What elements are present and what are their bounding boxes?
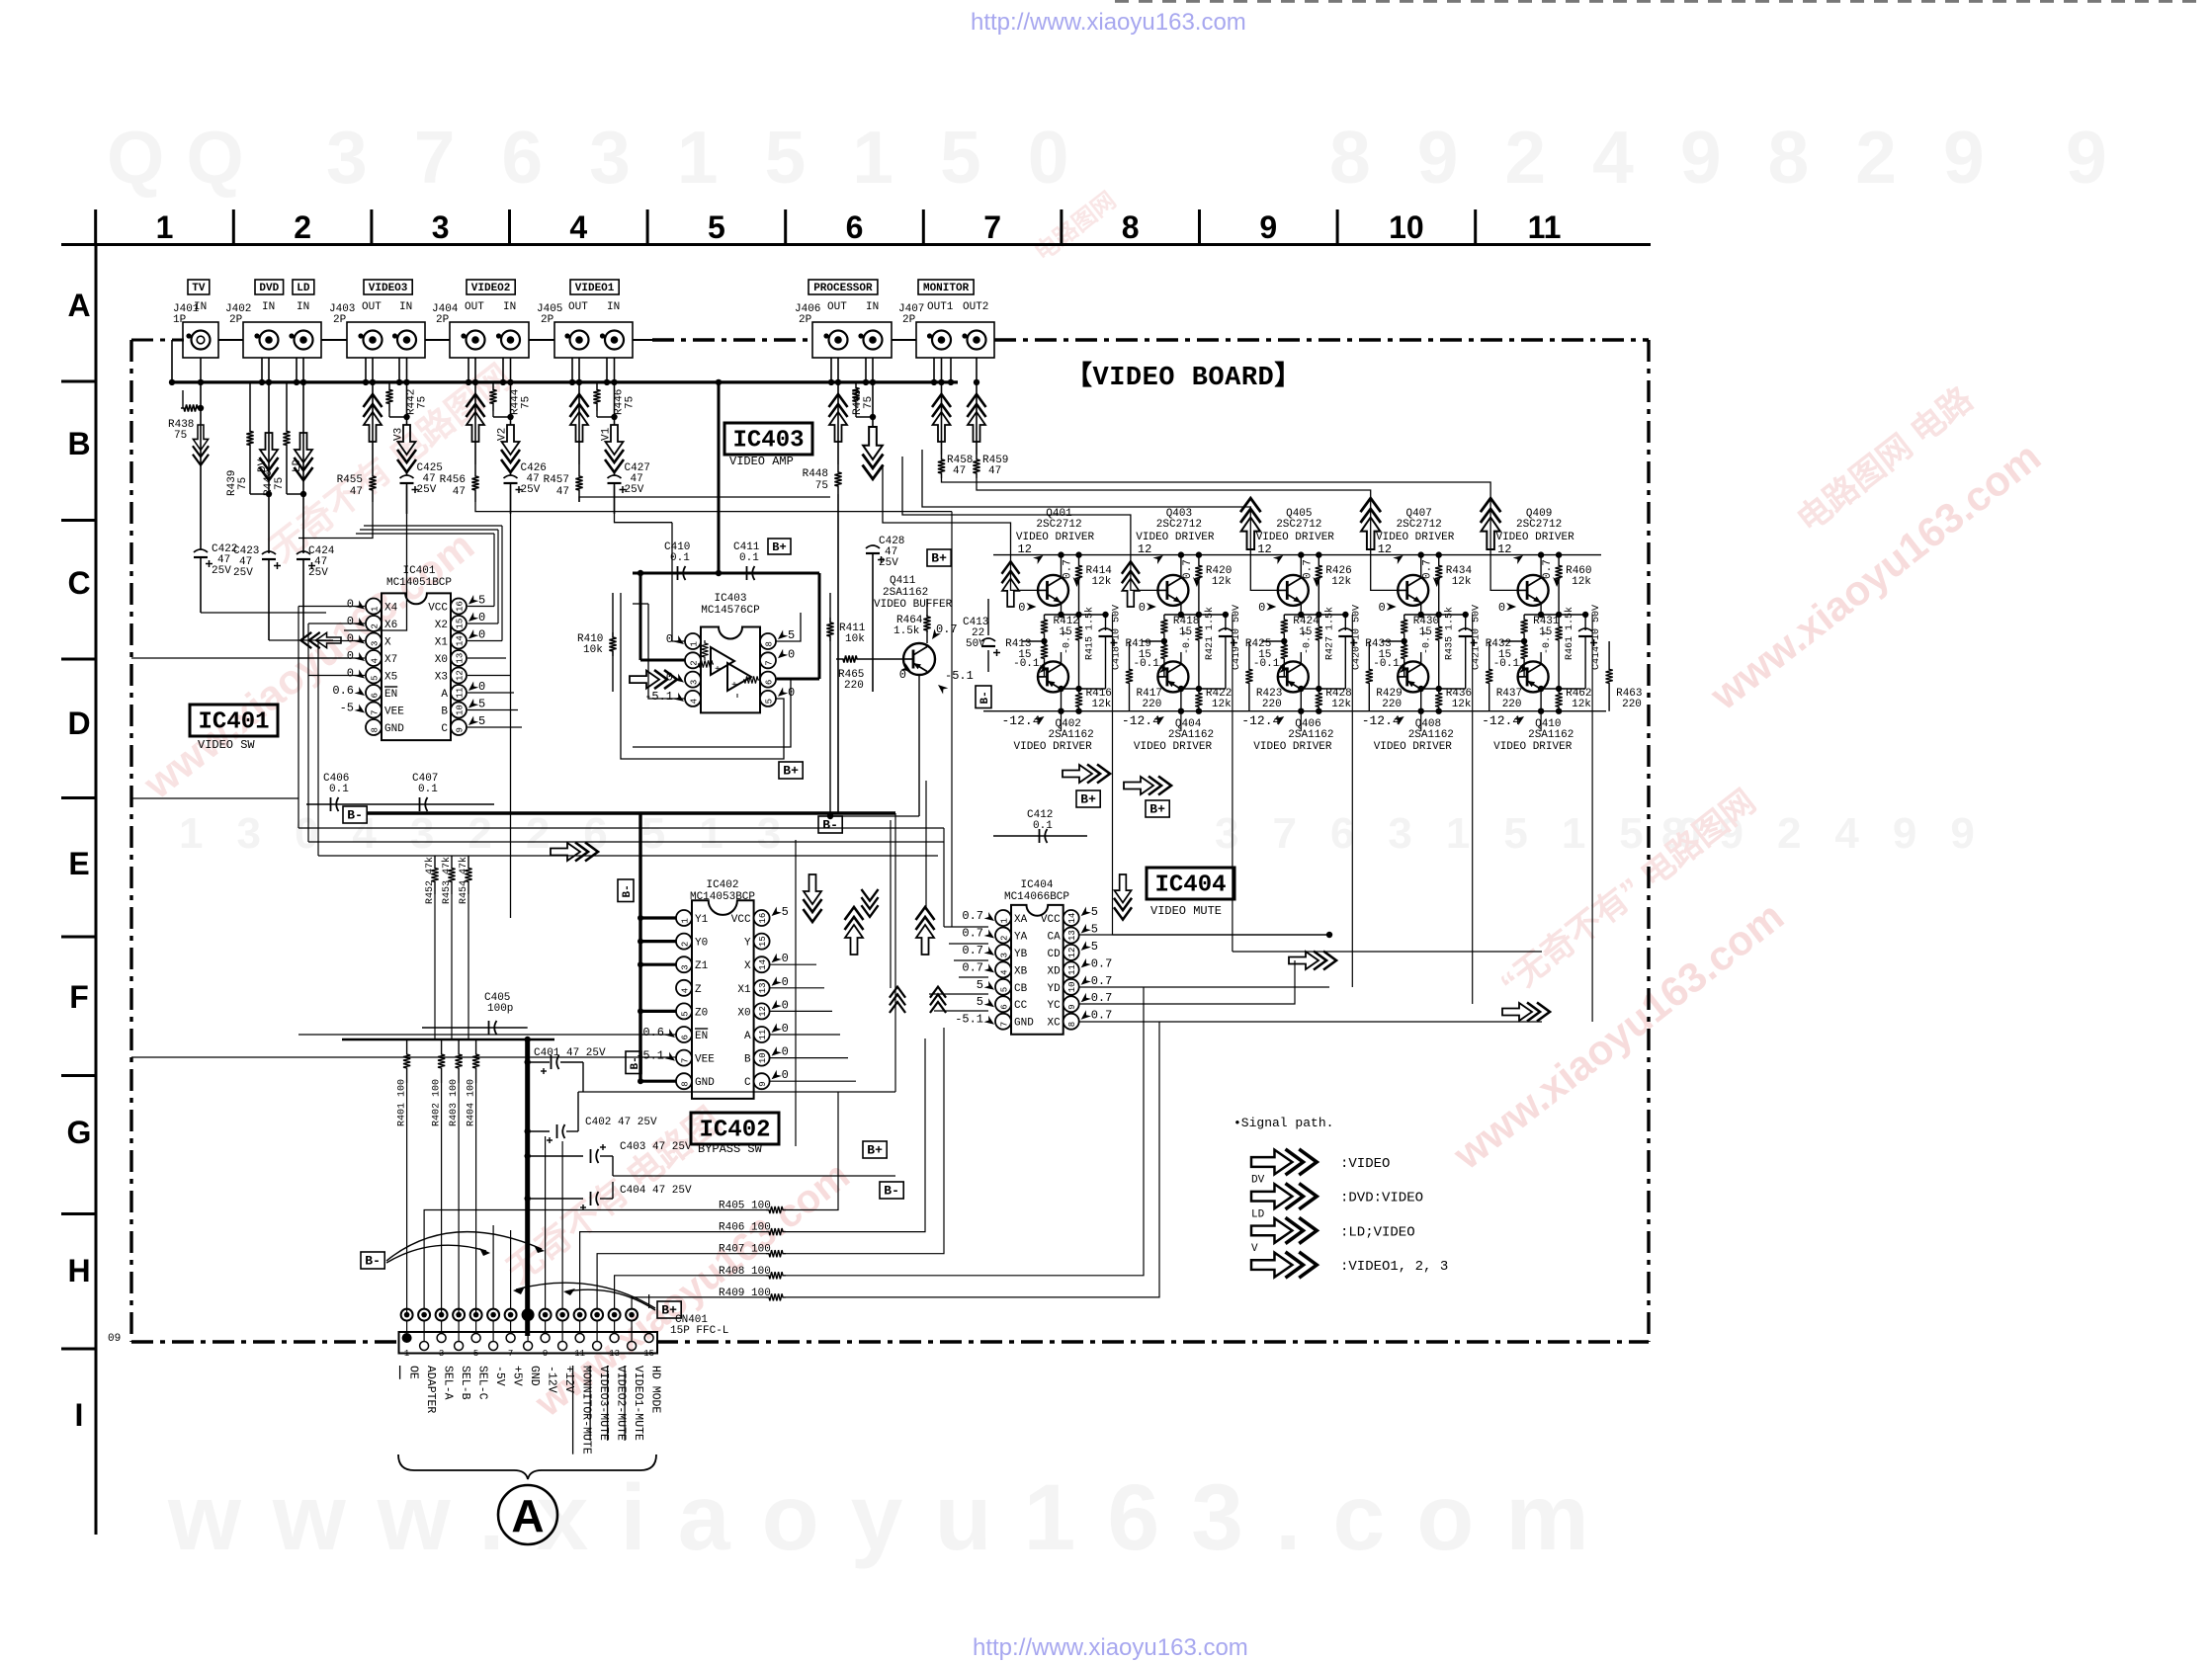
svg-text:3: 3 [1000, 953, 1010, 957]
svg-text:376315150: 376315150 [326, 116, 1115, 199]
svg-text:QQ: QQ [107, 116, 266, 199]
svg-text:GND: GND [384, 723, 404, 735]
svg-text:2SC2712: 2SC2712 [1516, 519, 1562, 531]
resistor R462 12k [1556, 688, 1592, 714]
svg-text:10: 10 [758, 1052, 768, 1063]
svg-text:2P: 2P [799, 314, 812, 326]
V3 input column R442 R455 C425 [337, 382, 443, 514]
label B- with arrows near CN401 [361, 1232, 545, 1269]
transistor Q403 label [1136, 508, 1215, 564]
svg-text:VIDEO DRIVER: VIDEO DRIVER [1493, 741, 1573, 753]
svg-text:2SA1162: 2SA1162 [1528, 729, 1574, 741]
svg-text:7: 7 [983, 209, 1001, 245]
svg-text:B: B [744, 1054, 751, 1066]
svg-text:13: 13 [1067, 930, 1077, 941]
label IC402 BYPASS SW [691, 1113, 779, 1156]
connector J401 TV jack [173, 280, 218, 358]
svg-text:Y1: Y1 [695, 914, 709, 926]
svg-text:VIDEO BUFFER: VIDEO BUFFER [874, 599, 953, 611]
svg-text:0.7: 0.7 [1302, 559, 1314, 579]
svg-text:OUT: OUT [465, 301, 484, 313]
resistor R438 cap C422 TV input [168, 382, 237, 613]
svg-text:VIDEO1-MUTE: VIDEO1-MUTE [632, 1366, 644, 1441]
svg-text:11: 11 [456, 688, 466, 699]
arrow into IC401 pin3 [300, 632, 341, 648]
svg-text:IC402: IC402 [706, 879, 738, 891]
svg-text:0.6: 0.6 [332, 684, 354, 698]
transistor Q403 2SC2712 [1139, 555, 1226, 619]
svg-text:14: 14 [758, 959, 768, 970]
wires IC404 outputs [1079, 932, 1542, 1022]
svg-text:2SA1162: 2SA1162 [1049, 729, 1094, 741]
svg-text:F: F [69, 979, 89, 1015]
svg-text:75: 75 [521, 396, 533, 409]
svg-text:2SC2712: 2SC2712 [1156, 519, 1202, 531]
MONITOR columns R458 R459 [932, 382, 1008, 478]
svg-text:-5V: -5V [493, 1366, 506, 1386]
wires IC403 loops [621, 523, 801, 759]
svg-text:-0.7: -0.7 [1063, 630, 1073, 654]
label IC401 VIDEO SW [190, 705, 278, 752]
svg-text:220: 220 [1622, 699, 1642, 710]
svg-text:X1: X1 [737, 984, 751, 996]
svg-text:12: 12 [1018, 542, 1032, 556]
svg-text:0: 0 [782, 975, 789, 989]
svg-text:C402 47 25V: C402 47 25V [585, 1117, 657, 1128]
transistor Q407 label [1376, 508, 1455, 564]
svg-text:12: 12 [456, 670, 466, 681]
label B- rotated near IC402 [618, 879, 634, 902]
wires IC401 left [131, 607, 365, 857]
svg-text:25V: 25V [417, 484, 437, 496]
svg-text:6: 6 [765, 680, 775, 685]
svg-text:Y0: Y0 [695, 938, 708, 950]
svg-text:R402 100: R402 100 [432, 1079, 443, 1126]
svg-text:IN: IN [399, 301, 412, 313]
svg-text:2SC2712: 2SC2712 [1397, 519, 1442, 531]
resistor R437 220 [1486, 641, 1522, 711]
svg-text:Z0: Z0 [695, 1007, 708, 1019]
IC401 MC14051BCP [332, 565, 485, 740]
svg-text:SEL-A: SEL-A [442, 1366, 455, 1400]
svg-text:4: 4 [569, 209, 587, 245]
svg-text:47: 47 [988, 465, 1001, 477]
svg-text:0: 0 [347, 598, 354, 612]
svg-text:5: 5 [681, 1011, 691, 1016]
legend title Signal path [1234, 1116, 1333, 1130]
svg-text:IN: IN [866, 301, 879, 313]
svg-text:R455: R455 [337, 474, 363, 486]
svg-text:0: 0 [347, 615, 354, 628]
svg-text:IN: IN [297, 301, 309, 313]
svg-text:XD: XD [1047, 965, 1061, 977]
signal arrow driver col 2 [1122, 561, 1140, 607]
svg-text:2: 2 [690, 660, 700, 665]
svg-text:X: X [744, 960, 751, 972]
svg-text:B-: B- [630, 1056, 641, 1069]
svg-text:HD MODE: HD MODE [649, 1366, 662, 1413]
svg-text:R448: R448 [803, 468, 828, 480]
resistor R440 cap C424 LD input [263, 382, 335, 640]
svg-text:9: 9 [543, 1349, 548, 1359]
svg-text:+: + [715, 665, 721, 676]
svg-text:8: 8 [1067, 1022, 1077, 1027]
svg-text:X7: X7 [384, 654, 397, 666]
svg-text:-0.1: -0.1 [1493, 658, 1520, 670]
transistor Q408 2SA1162 [1398, 652, 1466, 714]
svg-text:YC: YC [1047, 1000, 1061, 1012]
svg-text:5: 5 [1091, 940, 1098, 954]
svg-text:G: G [67, 1115, 92, 1150]
svg-text:3: 3 [432, 209, 450, 245]
svg-text:VIDEO DRIVER: VIDEO DRIVER [1374, 741, 1453, 753]
svg-text:R421 1.5k: R421 1.5k [1204, 607, 1216, 660]
svg-text:Z1: Z1 [695, 960, 709, 972]
svg-text:OUT: OUT [568, 301, 588, 313]
resistor R429 220 [1366, 641, 1403, 711]
svg-text:5: 5 [708, 209, 725, 245]
signal arrow driver col 3 [1240, 498, 1261, 549]
resistors R405-R409 100 [424, 987, 1159, 1308]
svg-text:2SA1162: 2SA1162 [883, 587, 928, 599]
input signal routing wires [201, 486, 952, 918]
GND trunk to CN401 [342, 1037, 554, 1336]
svg-text:4: 4 [681, 988, 691, 993]
svg-text:Z: Z [695, 984, 702, 996]
svg-text:12k: 12k [1572, 699, 1591, 710]
svg-text:YB: YB [1014, 949, 1028, 960]
svg-text:1: 1 [404, 1349, 409, 1359]
signal arrow driver col 5 [1481, 498, 1501, 549]
capacitor C405 100p [422, 992, 528, 1035]
svg-text:B-: B- [365, 1254, 381, 1269]
svg-text:47: 47 [350, 486, 363, 498]
resistors R418 R419 15 [1125, 615, 1199, 677]
svg-text:0.7: 0.7 [962, 944, 983, 957]
svg-text:16: 16 [758, 913, 768, 924]
svg-text:C403 47 25V: C403 47 25V [620, 1141, 692, 1153]
connector J406 PROCESSOR jacks [795, 280, 892, 358]
svg-text:Y: Y [744, 938, 751, 950]
svg-text:IC401: IC401 [198, 709, 269, 736]
svg-text:10k: 10k [845, 633, 865, 645]
svg-text:B-: B- [979, 691, 991, 704]
svg-text:0.7: 0.7 [1091, 956, 1113, 970]
svg-text:4: 4 [690, 699, 700, 704]
svg-text:-12.4: -12.4 [1362, 713, 1401, 728]
arrow E-F right [1502, 1003, 1550, 1022]
svg-text:B: B [441, 706, 448, 718]
svg-text:-0.7: -0.7 [1182, 630, 1193, 654]
svg-text:0: 0 [782, 998, 789, 1012]
svg-text:0.1: 0.1 [1033, 820, 1053, 832]
svg-text:11: 11 [574, 1349, 585, 1359]
resistor R436 12k [1435, 688, 1472, 714]
svg-text:75: 75 [174, 430, 187, 442]
signal arrow driver col 4 [1360, 498, 1381, 549]
label B+ near C411 [768, 539, 791, 554]
svg-text:2P: 2P [541, 314, 554, 326]
wires IC402 EN VEE [131, 1035, 676, 1057]
transistor Q411 video buffer R464 [830, 575, 974, 816]
transistor Q405 label [1256, 508, 1335, 564]
resistor R417 220 [1126, 641, 1162, 711]
transistor Q401 label [1016, 508, 1095, 564]
svg-text:C419 10 50V: C419 10 50V [1232, 605, 1242, 670]
svg-text:www.xiaoyu163.com: www.xiaoyu163.com [167, 1465, 1621, 1570]
svg-text:MC14066BCP: MC14066BCP [1004, 891, 1069, 903]
CN401 pin labels [400, 1366, 662, 1454]
label Q404 VIDEO DRIVER [1122, 713, 1214, 753]
svg-text:0: 0 [347, 649, 354, 663]
transistor Q406 2SA1162 [1278, 652, 1346, 714]
svg-text:IC403: IC403 [732, 428, 804, 455]
svg-text:R454 47k: R454 47k [458, 857, 469, 904]
svg-text:16: 16 [456, 601, 466, 612]
svg-text:0: 0 [1378, 601, 1385, 615]
svg-text:5: 5 [782, 905, 789, 919]
thick net IC403 [638, 570, 819, 679]
svg-text:【VIDEO BOARD】: 【VIDEO BOARD】 [1065, 361, 1302, 393]
svg-text:2: 2 [294, 209, 311, 245]
svg-text:1.5k: 1.5k [893, 625, 920, 637]
capacitor C402 47 25V [525, 1092, 896, 1143]
svg-text:1: 1 [371, 607, 381, 612]
svg-text:220: 220 [1143, 699, 1162, 710]
label B+ right of C412 [1146, 800, 1169, 817]
svg-text:0.7: 0.7 [1182, 559, 1194, 579]
svg-text:VIDEO DRIVER: VIDEO DRIVER [1253, 741, 1332, 753]
svg-text:220: 220 [844, 680, 864, 692]
svg-text:CD: CD [1047, 949, 1061, 960]
svg-text:15: 15 [456, 619, 466, 629]
svg-text:5: 5 [478, 594, 485, 608]
svg-text:B+: B+ [772, 540, 786, 554]
column numbers 1-11 [156, 209, 1562, 245]
svg-text:ADAPTER: ADAPTER [424, 1366, 437, 1413]
transistor Q410 2SA1162 [1518, 652, 1586, 714]
svg-text:5: 5 [371, 676, 381, 681]
capacitor C412 0.1 [993, 809, 1087, 843]
arrow left of IC404 label [1114, 874, 1132, 920]
svg-text:12: 12 [1378, 542, 1392, 556]
svg-text:0: 0 [478, 680, 485, 694]
resistor R439 cap C423 DVD input [226, 382, 281, 640]
svg-text:0: 0 [347, 667, 354, 681]
svg-text:-5.1: -5.1 [945, 669, 974, 683]
capacitor C414 10 50V [1578, 605, 1602, 689]
capacitor C421 10 50V [1459, 605, 1483, 689]
label B+ near C409 [779, 762, 803, 779]
svg-text:C: C [744, 1077, 751, 1089]
svg-text:3: 3 [681, 964, 691, 969]
svg-text:13: 13 [456, 653, 466, 664]
svg-text:0.7: 0.7 [1422, 559, 1434, 579]
svg-text:I: I [75, 1397, 84, 1433]
svg-text:0: 0 [782, 952, 789, 965]
capacitor C419 10 50V [1219, 605, 1242, 689]
svg-text:6: 6 [681, 1035, 691, 1039]
svg-text:B-: B- [884, 1184, 899, 1199]
svg-text:220: 220 [1382, 699, 1402, 710]
svg-text:14: 14 [456, 635, 466, 646]
svg-text:0: 0 [788, 647, 795, 661]
svg-text:9: 9 [1067, 1004, 1077, 1009]
label B- rotated drivers [976, 686, 991, 708]
svg-text:VCC: VCC [428, 603, 448, 615]
svg-text:9: 9 [758, 1081, 768, 1086]
thick stubs IC402 [638, 915, 676, 1084]
label Q408 VIDEO DRIVER [1362, 713, 1454, 753]
svg-text:http://www.xiaoyu163.com: http://www.xiaoyu163.com [973, 1634, 1248, 1661]
svg-text:12: 12 [1067, 948, 1077, 958]
svg-text:25V: 25V [233, 567, 253, 579]
svg-text:0: 0 [782, 1045, 789, 1059]
resistors R424 R425 15 [1245, 615, 1319, 677]
svg-text:0.1: 0.1 [670, 552, 690, 564]
svg-text:-5.1: -5.1 [955, 1013, 983, 1027]
svg-text:B+: B+ [867, 1143, 883, 1158]
svg-text:2SA1162: 2SA1162 [1168, 729, 1214, 741]
svg-text:12k: 12k [1572, 576, 1591, 588]
svg-text::DVD:VIDEO: :DVD:VIDEO [1340, 1191, 1423, 1206]
svg-text:12: 12 [758, 1006, 768, 1017]
svg-text:9: 9 [2066, 116, 2107, 199]
svg-text:X1: X1 [435, 637, 449, 649]
resistor R463 220 [1606, 641, 1643, 711]
svg-text:IC401: IC401 [402, 565, 435, 577]
svg-text:47: 47 [453, 486, 466, 498]
svg-text:6: 6 [846, 209, 864, 245]
svg-text:PROCESSOR: PROCESSOR [813, 283, 873, 294]
svg-text:220: 220 [1502, 699, 1522, 710]
label B+ with arrows near CN401 [513, 1283, 681, 1318]
svg-text:15: 15 [643, 1349, 654, 1359]
svg-text:R401 100: R401 100 [397, 1079, 408, 1126]
label B+ above IC404 [1076, 790, 1100, 807]
svg-text:10: 10 [1067, 981, 1077, 992]
svg-text:-0.1: -0.1 [1253, 658, 1280, 670]
transistor Q409 2SC2712 [1498, 555, 1585, 619]
legend arrow :DVD:VIDEO [1251, 1175, 1423, 1209]
svg-text:15P FFC-L: 15P FFC-L [670, 1325, 728, 1337]
svg-text:DV: DV [1251, 1175, 1265, 1187]
signal arrows near IC402 [804, 874, 947, 1013]
resistor R416 12k [1075, 688, 1112, 714]
resistor R427 1.5k [1302, 607, 1335, 689]
svg-text:0.7: 0.7 [1091, 991, 1113, 1005]
svg-text:X: X [384, 637, 391, 649]
label Q406 VIDEO DRIVER [1241, 713, 1333, 753]
svg-text:+: + [731, 681, 737, 692]
svg-text:R435 1.5k: R435 1.5k [1444, 607, 1456, 660]
svg-text:0.1: 0.1 [329, 784, 349, 795]
label Q410 VIDEO DRIVER [1482, 713, 1574, 753]
svg-text:15: 15 [758, 936, 768, 947]
svg-text:-12.4: -12.4 [1122, 713, 1160, 728]
svg-text:R427 1.5k: R427 1.5k [1323, 607, 1335, 660]
svg-text:0.1: 0.1 [418, 784, 438, 795]
svg-text:CB: CB [1014, 983, 1028, 995]
svg-text:GND: GND [695, 1077, 715, 1089]
svg-text:0: 0 [1498, 601, 1505, 615]
svg-text:VEE: VEE [695, 1054, 715, 1066]
svg-text:X3: X3 [435, 672, 448, 684]
wires IC402 right [770, 964, 856, 1081]
svg-text:-12.4: -12.4 [1241, 713, 1280, 728]
-12V rail drivers [983, 710, 1606, 712]
transistor Q401 2SC2712 [1018, 555, 1105, 619]
resistor R410 10k [577, 593, 617, 692]
svg-text:V: V [1251, 1243, 1258, 1255]
title VIDEO BOARD [1065, 361, 1302, 393]
svg-text:5: 5 [788, 628, 795, 642]
svg-text:0: 0 [478, 611, 485, 624]
label B- near IC404 [818, 816, 842, 833]
svg-text:12k: 12k [1092, 576, 1112, 588]
resistor R434 12k [1422, 551, 1473, 618]
svg-text:C404 47 25V: C404 47 25V [620, 1185, 692, 1197]
svg-text:YD: YD [1047, 983, 1061, 995]
svg-text:R403 100: R403 100 [449, 1079, 460, 1126]
svg-text:5: 5 [765, 699, 775, 704]
arrow below Q402 [1063, 765, 1110, 784]
svg-text:7: 7 [681, 1058, 691, 1063]
long verticals right of IC402 [796, 781, 926, 1146]
svg-text:12k: 12k [1212, 576, 1232, 588]
driver output stubs [1062, 615, 1593, 1022]
ruler frame [61, 209, 1651, 1535]
svg-text:0.7: 0.7 [1542, 559, 1554, 579]
resistors R430 R433 15 [1365, 615, 1439, 677]
svg-text:2: 2 [681, 942, 691, 947]
svg-text:4: 4 [1000, 969, 1010, 974]
svg-text:R452 47k: R452 47k [424, 857, 436, 904]
svg-text:0.7: 0.7 [1091, 1009, 1113, 1023]
resistor R421 1.5k [1182, 607, 1216, 689]
svg-text:IC402: IC402 [699, 1118, 770, 1144]
svg-text:0: 0 [1139, 601, 1146, 615]
svg-text:LD: LD [297, 283, 310, 294]
svg-text:X5: X5 [384, 672, 397, 684]
svg-text:0.7: 0.7 [962, 927, 983, 941]
svg-text:C: C [67, 565, 90, 601]
svg-text::VIDEO: :VIDEO [1340, 1156, 1390, 1172]
svg-text:75: 75 [237, 477, 249, 490]
svg-text:YA: YA [1014, 932, 1028, 944]
svg-text:X0: X0 [737, 1007, 750, 1019]
svg-text:B: B [67, 426, 90, 461]
label B- rotated IC402 bottom [626, 1051, 641, 1074]
wire jack chain [218, 339, 916, 341]
transistor Q402 2SA1162 [1038, 652, 1106, 714]
svg-text:MC14053BCP: MC14053BCP [690, 891, 755, 903]
svg-text:0.6: 0.6 [642, 1026, 664, 1039]
resistor R411 10k [826, 593, 865, 819]
op-amp IC403 MC14576CP [644, 593, 795, 712]
svg-text:9: 9 [1259, 209, 1277, 245]
svg-text:-5: -5 [340, 702, 354, 715]
svg-text:IN: IN [503, 301, 516, 313]
svg-text:X6: X6 [384, 620, 397, 631]
svg-text:220: 220 [1262, 699, 1282, 710]
resistor R465 220 [836, 655, 903, 692]
B- rail [343, 806, 895, 1082]
svg-text:25V: 25V [625, 484, 644, 496]
svg-text:3: 3 [371, 641, 381, 646]
ground bus [169, 340, 979, 385]
svg-text:0.7: 0.7 [962, 960, 983, 974]
